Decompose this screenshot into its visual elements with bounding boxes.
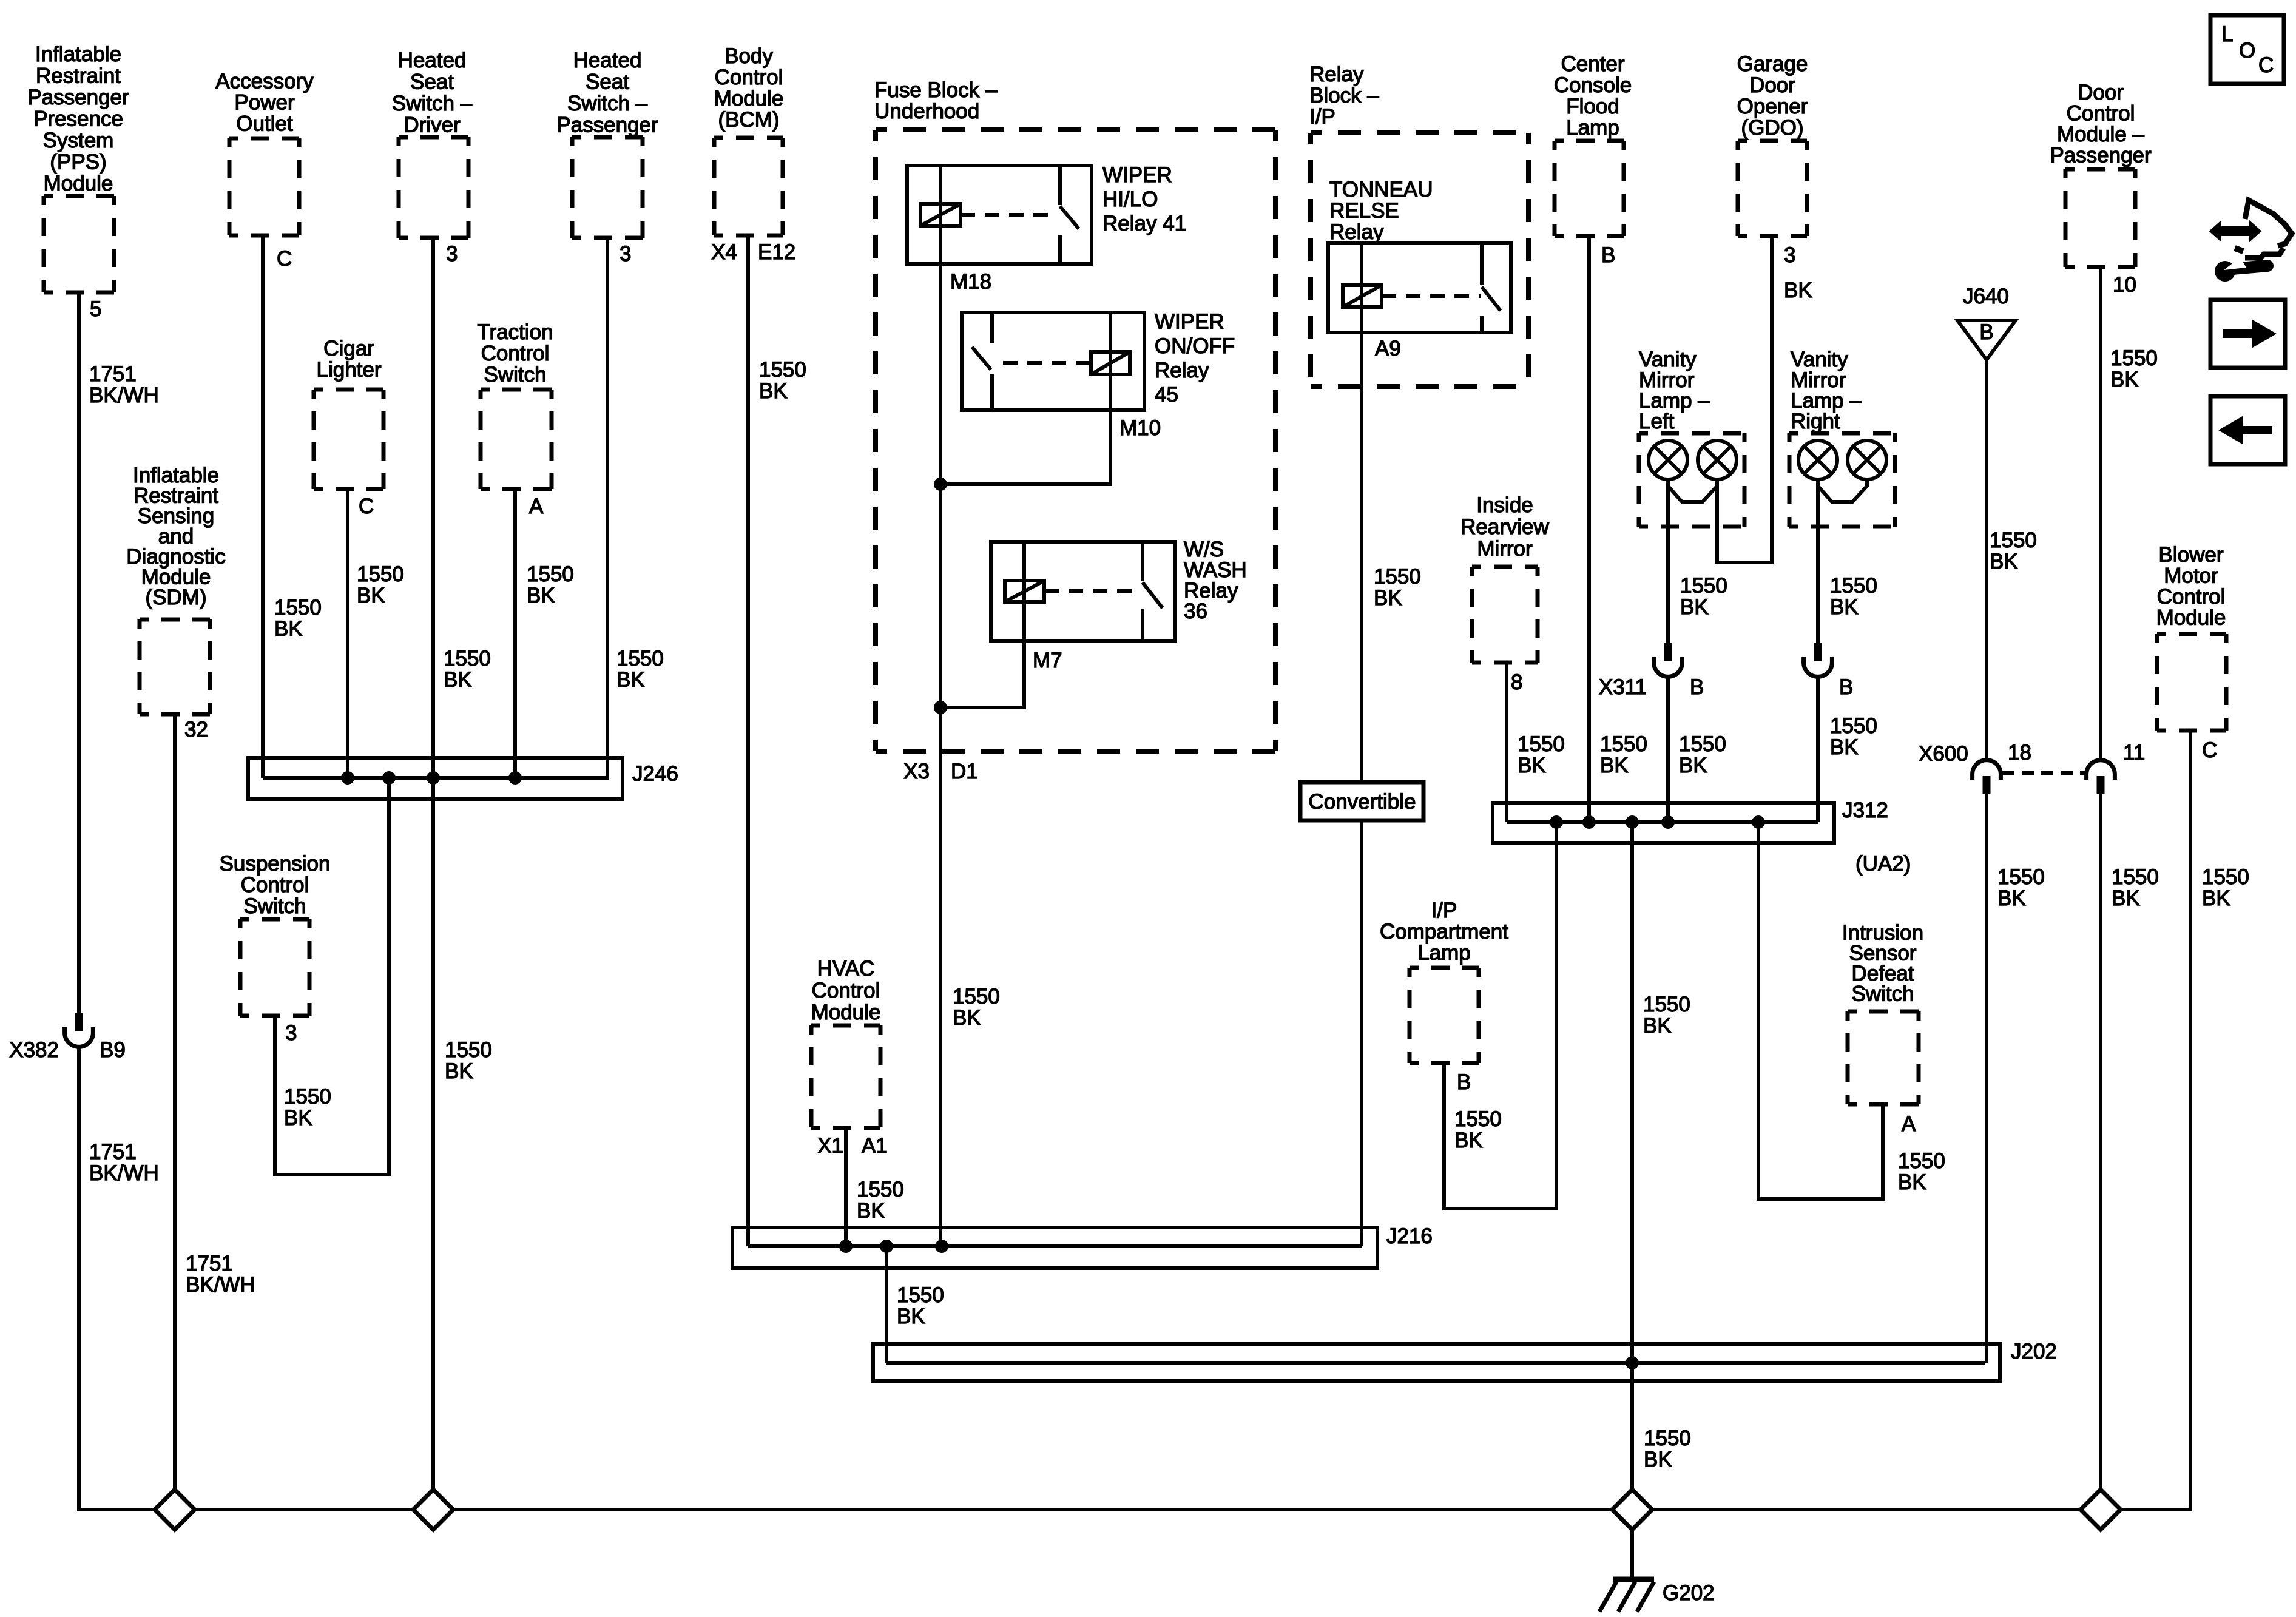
module Suspension Control Switch box <box>240 917 309 922</box>
svg-text:8: 8 <box>1511 670 1522 694</box>
svg-text:Passenger: Passenger <box>556 113 658 137</box>
splice bar J202 <box>873 1344 2000 1381</box>
module Garage Door Opener box <box>1738 139 1807 143</box>
svg-text:Heated: Heated <box>573 49 642 72</box>
svg-text:3: 3 <box>285 1021 297 1045</box>
relay 41 switch <box>1058 166 1062 205</box>
junction J216 J202 feed <box>880 1240 893 1253</box>
wire J312 to Intrusion Sensor Defeat Switch <box>1758 822 1883 1199</box>
vanity left lamp bulbs <box>1649 441 1687 479</box>
wire PPS pin5 to X382 <box>77 292 81 1013</box>
svg-text:J312: J312 <box>1842 798 1888 822</box>
svg-text:(SDM): (SDM) <box>145 586 206 609</box>
svg-text:1550: 1550 <box>1680 574 1727 598</box>
svg-text:Cigar: Cigar <box>323 337 374 360</box>
svg-text:Module: Module <box>714 87 784 110</box>
tonneau dashed link <box>1382 294 1481 298</box>
module Vanity Mirror Lamp Left box <box>1639 431 1744 436</box>
svg-text:X311: X311 <box>1599 675 1647 699</box>
svg-text:Relay: Relay <box>1309 62 1364 86</box>
relay 45 dashed link <box>1003 361 1091 365</box>
wire Center Console Flood Lamp B to J312 <box>1587 236 1591 822</box>
connector X382 <box>75 1013 83 1031</box>
svg-text:D1: D1 <box>951 760 978 783</box>
connector X600 pin11 <box>2087 760 2115 780</box>
svg-text:I/P: I/P <box>1309 105 1335 129</box>
svg-text:Switch: Switch <box>484 363 546 387</box>
svg-text:1550: 1550 <box>274 596 322 619</box>
svg-text:BK: BK <box>953 1006 981 1030</box>
svg-text:ON/OFF: ON/OFF <box>1155 334 1235 358</box>
svg-text:Module: Module <box>2156 606 2226 630</box>
svg-text:BK: BK <box>1830 735 1859 759</box>
svg-text:1550: 1550 <box>1898 1149 1945 1173</box>
junction J312 vanity left <box>1661 815 1675 829</box>
svg-text:BK/WH: BK/WH <box>89 1161 159 1185</box>
svg-text:1550: 1550 <box>1600 732 1647 756</box>
wire J216 to J202 <box>885 1246 888 1363</box>
module HVAC Control Module box <box>811 1024 880 1028</box>
wire J312 to I/P Compartment Lamp <box>1444 822 1556 1209</box>
svg-text:Control: Control <box>241 873 309 897</box>
svg-text:B: B <box>1601 243 1615 267</box>
wire J640 to X600-18 <box>1985 360 1988 760</box>
svg-text:Passenger: Passenger <box>2050 144 2152 167</box>
svg-text:WIPER: WIPER <box>1155 310 1224 334</box>
wire SDM pin32 to bus <box>173 714 177 1490</box>
svg-text:WIPER: WIPER <box>1102 163 1172 187</box>
junction J246 cigar <box>341 771 354 785</box>
svg-text:Restraint: Restraint <box>36 64 121 88</box>
fuse block underhood box <box>876 127 1275 132</box>
svg-text:BK: BK <box>1454 1129 1483 1152</box>
junction J312 IP lamp <box>1550 815 1563 829</box>
svg-text:BK: BK <box>616 668 645 692</box>
svg-text:1751: 1751 <box>89 362 137 386</box>
connector J640 triangle <box>1957 320 2016 360</box>
svg-text:BK: BK <box>274 617 303 641</box>
svg-text:Right: Right <box>1791 410 1840 433</box>
svg-text:1550: 1550 <box>759 358 806 382</box>
svg-text:Seat: Seat <box>410 70 454 94</box>
svg-text:1550: 1550 <box>2202 865 2249 889</box>
relay 36 coil <box>1005 581 1044 602</box>
connector X600 pin18 <box>1973 760 2001 780</box>
svg-text:Module: Module <box>44 172 113 195</box>
svg-text:System: System <box>43 129 114 152</box>
wire M18 / X3-D1 to J216 <box>939 166 942 1246</box>
svg-text:B: B <box>1690 675 1704 699</box>
icon arrow right box <box>2210 300 2285 368</box>
icon arrow left box <box>2210 396 2285 464</box>
junction J312 intrusion <box>1752 815 1765 829</box>
svg-text:BK: BK <box>1784 279 1812 302</box>
relay 36 switch <box>1141 542 1144 581</box>
svg-text:J202: J202 <box>2011 1340 2057 1363</box>
svg-text:Relay: Relay <box>1329 220 1384 244</box>
svg-text:1550: 1550 <box>1830 714 1877 738</box>
svg-text:1550: 1550 <box>857 1178 904 1201</box>
icon tool/check <box>2220 226 2251 236</box>
wire X382 to ground bus / bottom bus / blower riser <box>79 731 2190 1510</box>
svg-text:BK: BK <box>1997 886 2026 910</box>
svg-text:3: 3 <box>620 242 631 266</box>
svg-text:Door: Door <box>2078 81 2124 104</box>
svg-text:BK: BK <box>527 584 555 607</box>
svg-text:BK: BK <box>1374 586 1402 610</box>
svg-text:Relay 41: Relay 41 <box>1102 212 1186 235</box>
svg-text:18: 18 <box>2008 741 2031 765</box>
svg-text:B: B <box>1839 675 1853 699</box>
svg-text:X3: X3 <box>903 760 930 783</box>
svg-text:Door: Door <box>1749 73 1795 97</box>
svg-text:1550: 1550 <box>1644 1426 1691 1450</box>
svg-text:X600: X600 <box>1919 742 1968 766</box>
svg-text:B: B <box>1457 1070 1471 1094</box>
bus junction diamond door wire <box>2081 1490 2121 1530</box>
svg-text:Mirror: Mirror <box>1477 537 1533 561</box>
junction J202 G202 <box>1626 1356 1639 1369</box>
svg-text:BK/WH: BK/WH <box>89 383 159 407</box>
svg-text:Blower: Blower <box>2159 543 2224 567</box>
svg-text:1550: 1550 <box>1830 574 1877 598</box>
junction M18/M7 <box>934 701 947 714</box>
wire Heated Seat Passenger pin3 to J246 <box>606 238 609 778</box>
svg-text:Presence: Presence <box>33 107 123 131</box>
svg-text:B9: B9 <box>100 1038 126 1062</box>
svg-text:Fuse Block –: Fuse Block – <box>874 78 998 102</box>
svg-text:1550: 1550 <box>1679 732 1726 756</box>
svg-text:10: 10 <box>2113 273 2136 297</box>
svg-text:BK: BK <box>1830 595 1859 619</box>
svg-text:3: 3 <box>1784 243 1795 267</box>
dashed link X600 <box>2002 771 2087 775</box>
relay 36 pin line <box>1022 542 1026 641</box>
svg-text:Switch –: Switch – <box>392 92 473 115</box>
svg-text:A9: A9 <box>1375 337 1401 360</box>
module Heated Seat Switch Driver box <box>399 135 468 140</box>
svg-text:BK: BK <box>444 668 472 692</box>
svg-text:BK: BK <box>1643 1014 1672 1038</box>
svg-text:C: C <box>359 495 374 518</box>
svg-text:BK: BK <box>1898 1170 1926 1194</box>
svg-text:Module: Module <box>811 1001 881 1024</box>
svg-text:BK: BK <box>2112 886 2140 910</box>
svg-text:11: 11 <box>2123 741 2145 765</box>
splice bar J312 <box>1493 803 1834 843</box>
svg-text:BK/WH: BK/WH <box>186 1273 255 1297</box>
svg-text:O: O <box>2239 39 2255 62</box>
svg-text:Module –: Module – <box>2057 123 2145 146</box>
svg-text:Switch: Switch <box>243 894 306 918</box>
module IP Compartment Lamp box <box>1410 966 1479 970</box>
ground G202 <box>1613 1577 1654 1582</box>
wire J312 through J202 to G202 bus <box>1630 822 1634 1490</box>
svg-text:Passenger: Passenger <box>27 86 129 109</box>
svg-text:M7: M7 <box>1033 649 1062 672</box>
bus junction diamond J246 wire <box>413 1490 453 1530</box>
svg-text:Left: Left <box>1639 410 1675 433</box>
svg-text:Relay: Relay <box>1155 359 1209 382</box>
svg-text:J246: J246 <box>632 762 678 786</box>
wire Inside Rearview Mirror pin8 to J312 <box>1505 663 1508 822</box>
svg-text:BK: BK <box>1679 754 1707 777</box>
svg-text:Control: Control <box>2157 585 2226 609</box>
module Blower Motor Control Module box <box>2157 632 2226 636</box>
relay 41 coil <box>920 204 961 226</box>
wire X311 to J312 <box>1666 677 1670 822</box>
wire Tonneau A9 to J216 <box>1360 243 1363 1246</box>
svg-text:Accessory: Accessory <box>215 70 314 93</box>
svg-text:45: 45 <box>1155 383 1178 407</box>
module SDM box <box>140 618 210 622</box>
module Accessory Power Outlet box <box>229 137 299 141</box>
svg-text:I/P: I/P <box>1431 899 1457 922</box>
svg-text:1550: 1550 <box>357 562 404 586</box>
svg-text:Suspension: Suspension <box>220 852 331 876</box>
wire Cigar Lighter pin C to J246 <box>346 489 349 778</box>
svg-text:1550: 1550 <box>444 647 491 670</box>
svg-text:Switch: Switch <box>1851 982 1914 1006</box>
svg-text:1550: 1550 <box>2110 346 2158 370</box>
svg-text:M18: M18 <box>950 270 991 294</box>
relay 36 dashed link <box>1044 589 1140 593</box>
svg-text:1550: 1550 <box>1454 1107 1502 1131</box>
svg-text:1550: 1550 <box>1374 565 1421 589</box>
svg-text:Control: Control <box>812 979 880 1002</box>
svg-text:J640: J640 <box>1963 285 2009 308</box>
svg-text:Block –: Block – <box>1309 84 1379 107</box>
splice bar J246 <box>248 758 623 799</box>
svg-text:(BCM): (BCM) <box>718 108 779 132</box>
svg-text:Flood: Flood <box>1566 95 1619 118</box>
relay TONNEAU RELSE box <box>1328 243 1511 333</box>
svg-text:A: A <box>529 495 544 518</box>
svg-text:BK: BK <box>1600 754 1629 777</box>
wire vanity right connector to J312 <box>1816 677 1820 822</box>
svg-text:(UA2): (UA2) <box>1855 852 1911 876</box>
wire Door Control Module pin10 to X600-11 <box>2099 267 2102 760</box>
junction J312 flood lamp <box>1582 815 1596 829</box>
svg-text:5: 5 <box>90 297 101 321</box>
svg-text:(PPS): (PPS) <box>50 150 106 174</box>
svg-text:L: L <box>2221 22 2233 46</box>
svg-text:BK: BK <box>1518 754 1546 777</box>
wire J246 to Suspension Control Switch <box>275 778 389 1175</box>
svg-text:1550: 1550 <box>616 647 664 670</box>
svg-text:J216: J216 <box>1386 1224 1433 1248</box>
module Cigar Lighter box <box>314 388 383 392</box>
svg-text:BK: BK <box>2202 886 2230 910</box>
wire Blower Motor C riser (drawn with bus) <box>2189 731 2192 1510</box>
wire relay36 M7 to M18 wire <box>940 641 1024 707</box>
svg-text:E12: E12 <box>758 240 795 264</box>
wire GDO pin3 to Vanity Left lamp <box>1717 236 1772 562</box>
relay block IP box <box>1311 130 1528 135</box>
svg-text:1550: 1550 <box>1997 865 2045 889</box>
wire BCM E12 to J216 <box>746 235 750 1246</box>
svg-text:Center: Center <box>1561 52 1624 76</box>
svg-text:Traction: Traction <box>477 320 553 344</box>
svg-text:1550: 1550 <box>527 562 574 586</box>
wire Heated Seat Driver pin3 through J246 to bus <box>431 238 435 1490</box>
wire relay45 M10 to M18 wire <box>940 410 1110 484</box>
svg-text:Console: Console <box>1554 73 1632 97</box>
junction J246 suspension <box>382 771 396 785</box>
svg-text:M10: M10 <box>1119 416 1161 440</box>
svg-text:Opener: Opener <box>1737 95 1808 118</box>
tonneau coil <box>1343 285 1382 307</box>
svg-text:1550: 1550 <box>1643 993 1690 1016</box>
svg-text:(GDO): (GDO) <box>1741 116 1803 140</box>
svg-text:1550: 1550 <box>897 1283 944 1307</box>
relay 41 dashed link <box>961 213 1058 217</box>
svg-text:HI/LO: HI/LO <box>1102 187 1158 211</box>
svg-text:X4: X4 <box>711 240 737 264</box>
svg-text:32: 32 <box>184 718 208 741</box>
Convertible option box <box>1300 782 1423 820</box>
svg-text:Lamp: Lamp <box>1417 941 1471 965</box>
wire G202 drop <box>1630 1530 1634 1578</box>
svg-text:TONNEAU: TONNEAU <box>1329 178 1433 201</box>
svg-text:X382: X382 <box>9 1038 59 1062</box>
svg-text:BK: BK <box>897 1305 925 1328</box>
svg-text:Convertible: Convertible <box>1308 790 1416 814</box>
svg-text:Rearview: Rearview <box>1460 515 1550 539</box>
svg-text:Heated: Heated <box>398 49 467 72</box>
svg-text:RELSE: RELSE <box>1329 199 1399 223</box>
splice bar J216 <box>732 1227 1377 1268</box>
junction J246 traction <box>508 771 522 785</box>
svg-text:1550: 1550 <box>284 1085 331 1109</box>
wire Vanity Right to connector B <box>1816 479 1820 643</box>
module BCM box <box>714 136 783 140</box>
svg-text:BK: BK <box>759 379 788 403</box>
svg-text:BK: BK <box>1680 595 1709 619</box>
module PPS box <box>44 194 114 198</box>
svg-text:Body: Body <box>724 44 773 68</box>
svg-text:Underhood: Underhood <box>874 100 979 123</box>
svg-text:Power: Power <box>234 91 295 115</box>
svg-text:BK: BK <box>284 1106 312 1130</box>
svg-text:BK: BK <box>857 1199 885 1223</box>
svg-text:C: C <box>2258 53 2274 77</box>
svg-text:1550: 1550 <box>1990 528 2037 552</box>
svg-text:1751: 1751 <box>89 1140 137 1164</box>
relay 45 switch <box>990 312 994 343</box>
svg-text:1550: 1550 <box>953 985 1000 1008</box>
junction J216 HVAC <box>839 1240 853 1253</box>
module Intrusion Sensor Defeat Switch box <box>1848 1010 1919 1014</box>
svg-text:BK: BK <box>357 584 385 607</box>
connector vanity right B <box>1814 643 1822 661</box>
bus junction diamond SDM <box>155 1490 195 1530</box>
svg-text:Control: Control <box>715 66 783 89</box>
svg-text:A1: A1 <box>862 1134 888 1158</box>
svg-text:Garage: Garage <box>1737 52 1808 76</box>
svg-text:A: A <box>1902 1112 1916 1136</box>
relay 36 W/S WASH box <box>991 542 1175 641</box>
svg-text:C: C <box>2202 738 2217 762</box>
svg-text:36: 36 <box>1184 599 1207 623</box>
svg-text:C: C <box>277 247 292 271</box>
module Heated Seat Switch Passenger box <box>572 135 643 140</box>
module Inside Rearview Mirror box <box>1472 565 1538 569</box>
svg-text:B: B <box>1979 320 1993 344</box>
junction J216 D1 <box>935 1240 948 1253</box>
wire Vanity Left to X311 <box>1666 479 1670 643</box>
wire Traction Control pin A to J246 <box>513 489 517 778</box>
svg-text:Seat: Seat <box>586 70 629 94</box>
svg-text:Control: Control <box>2067 102 2135 126</box>
svg-text:BK: BK <box>1644 1448 1672 1471</box>
svg-text:Inside: Inside <box>1476 493 1533 517</box>
svg-text:X1: X1 <box>817 1134 843 1158</box>
svg-text:G202: G202 <box>1663 1581 1715 1605</box>
svg-text:3: 3 <box>446 242 458 266</box>
svg-text:Inflatable: Inflatable <box>35 42 121 66</box>
svg-text:1550: 1550 <box>445 1038 492 1062</box>
svg-text:Compartment: Compartment <box>1380 920 1508 944</box>
svg-text:Lamp: Lamp <box>1566 116 1619 140</box>
module Traction Control Switch box <box>481 388 552 392</box>
wire X600-11 to bus <box>2099 794 2102 1490</box>
junction J312 G202 feed <box>1626 815 1639 829</box>
svg-text:Control: Control <box>481 342 550 365</box>
connector X311 B <box>1664 643 1672 661</box>
tonneau switch <box>1480 243 1484 285</box>
wire HVAC X1-A1 to J216 <box>844 1128 848 1246</box>
junction M18/M10 <box>934 478 947 491</box>
wire X600-18 to J202 <box>1985 794 1988 1363</box>
junction J246 heated driver <box>427 771 440 785</box>
module Vanity Mirror Lamp Right box <box>1789 431 1895 436</box>
relay 45 pin line <box>1109 312 1112 410</box>
vanity right lamp bulbs <box>1798 441 1837 479</box>
svg-text:Switch –: Switch – <box>567 92 648 115</box>
svg-text:BK: BK <box>2110 368 2139 391</box>
relay 45 coil <box>1091 352 1130 374</box>
bus junction diamond G202 <box>1612 1490 1652 1530</box>
svg-text:Motor: Motor <box>2164 564 2218 588</box>
svg-text:1550: 1550 <box>2112 865 2159 889</box>
svg-text:Lighter: Lighter <box>316 358 381 382</box>
module Center Console Flood Lamp box <box>1555 139 1624 143</box>
wire Accessory Power Outlet pin C to J246 <box>261 235 265 778</box>
svg-text:HVAC: HVAC <box>817 957 875 981</box>
svg-text:Outlet: Outlet <box>236 112 293 136</box>
svg-text:1751: 1751 <box>186 1252 233 1275</box>
relay 41 WIPER HI/LO box <box>907 166 1092 264</box>
svg-text:BK: BK <box>445 1059 473 1083</box>
module Door Control Module box <box>2065 167 2135 172</box>
svg-text:1550: 1550 <box>1518 732 1565 756</box>
svg-text:BK: BK <box>1990 550 2018 573</box>
relay 45 WIPER ON/OFF box <box>962 312 1144 410</box>
icon LOC box <box>2210 15 2284 84</box>
svg-text:Driver: Driver <box>403 113 461 137</box>
